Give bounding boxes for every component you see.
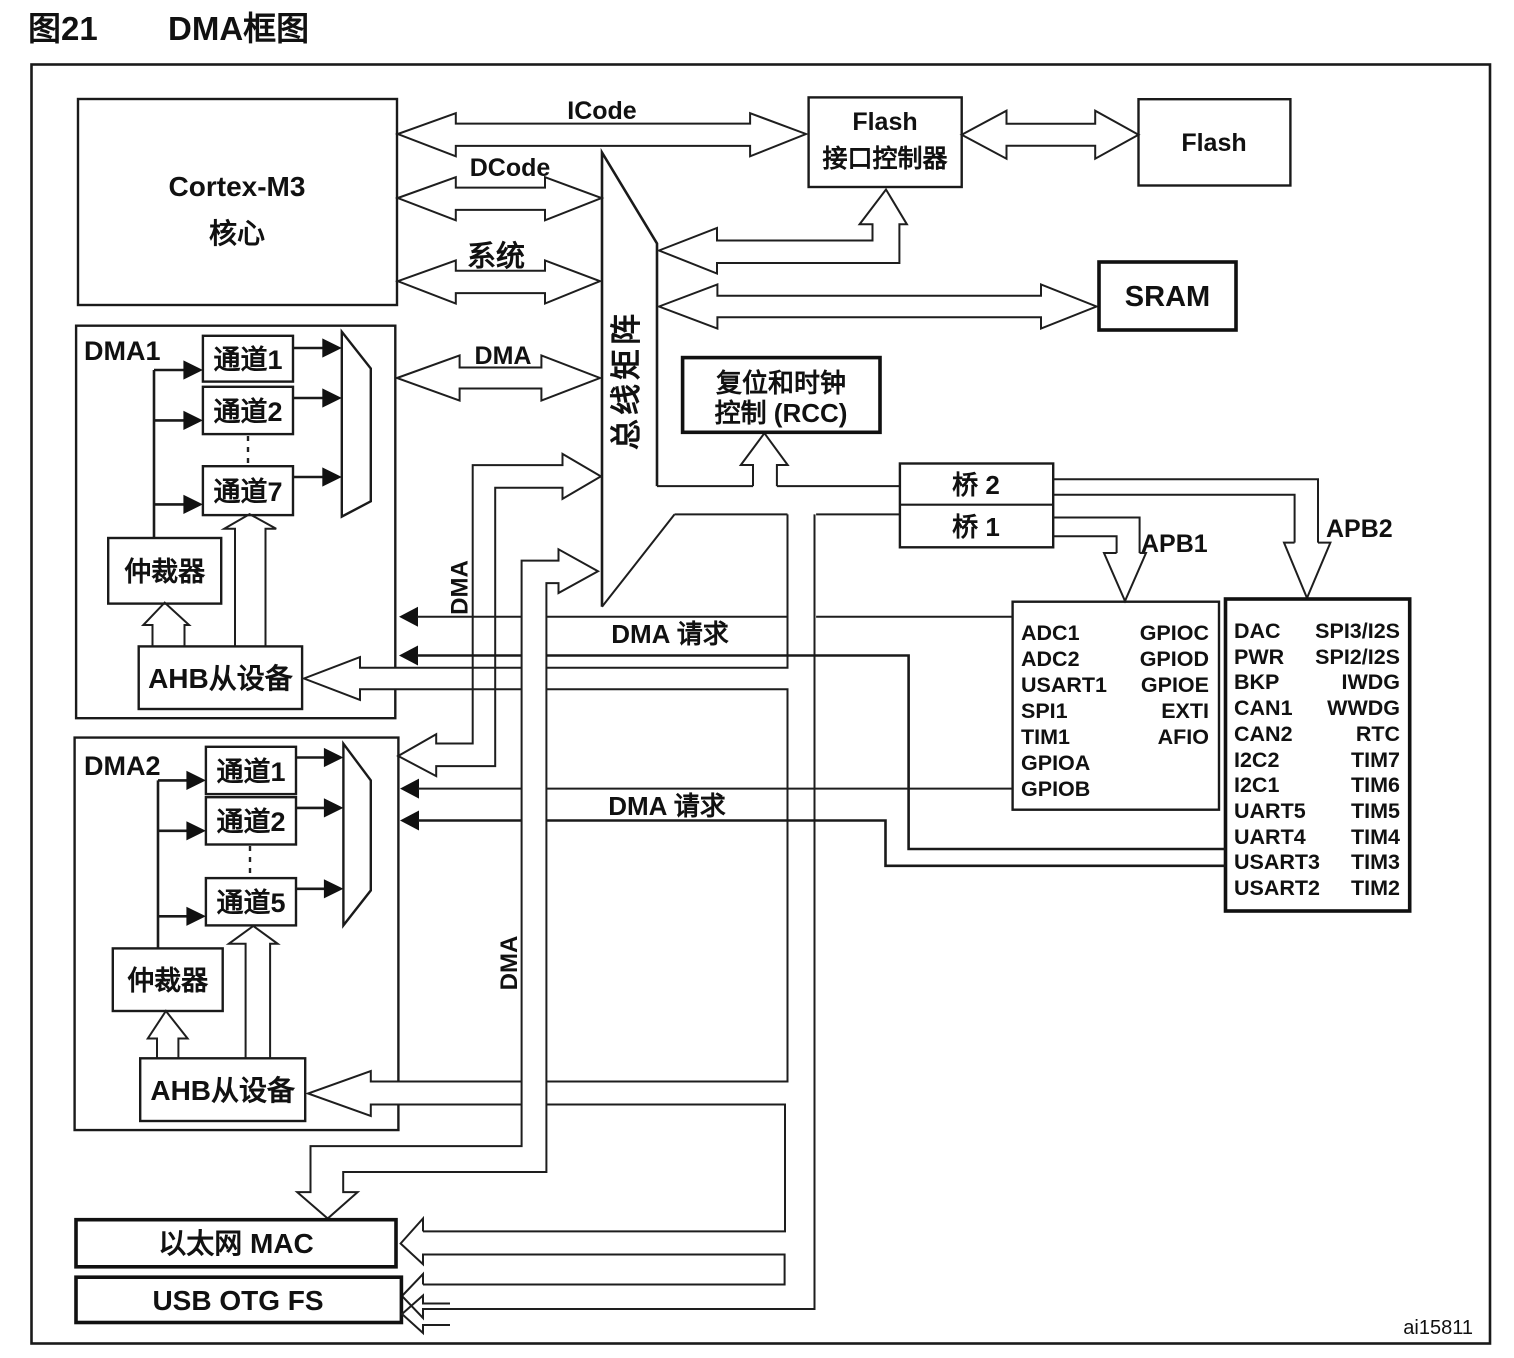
- svg-text:SPI2/I2S: SPI2/I2S: [1315, 645, 1400, 669]
- svg-text:APB1: APB1: [1141, 530, 1208, 558]
- svg-text:GPIOC: GPIOC: [1140, 621, 1209, 645]
- svg-text:DMA2: DMA2: [84, 751, 161, 781]
- svg-text:IWDG: IWDG: [1341, 670, 1400, 694]
- svg-text:BKP: BKP: [1234, 670, 1279, 694]
- svg-text:AFIO: AFIO: [1158, 725, 1209, 749]
- svg-text:TIM4: TIM4: [1351, 825, 1400, 849]
- svg-text:通道7: 通道7: [213, 476, 282, 507]
- svg-text:仲裁器: 仲裁器: [124, 557, 206, 587]
- svg-text:通道2: 通道2: [216, 806, 285, 837]
- svg-text:UART4: UART4: [1234, 825, 1306, 849]
- svg-text:USART3: USART3: [1234, 850, 1320, 874]
- svg-text:Flash: Flash: [1181, 129, 1246, 157]
- svg-text:GPIOD: GPIOD: [1140, 647, 1209, 671]
- svg-text:核心: 核心: [209, 218, 265, 249]
- svg-text:ai15811: ai15811: [1403, 1317, 1473, 1339]
- svg-text:DMA: DMA: [475, 342, 532, 370]
- svg-text:TIM1: TIM1: [1021, 725, 1070, 749]
- svg-text:I2C1: I2C1: [1234, 773, 1279, 797]
- svg-text:UART5: UART5: [1234, 799, 1306, 823]
- svg-text:DMA1: DMA1: [84, 336, 161, 366]
- svg-text:CAN2: CAN2: [1234, 722, 1293, 746]
- svg-text:TIM6: TIM6: [1351, 773, 1400, 797]
- svg-text:ICode: ICode: [567, 97, 637, 125]
- svg-text:桥 2: 桥 2: [952, 470, 1000, 500]
- svg-text:DMA 请求: DMA 请求: [608, 791, 725, 821]
- svg-text:TIM2: TIM2: [1351, 876, 1400, 900]
- svg-text:总线矩阵: 总线矩阵: [609, 310, 644, 450]
- svg-text:DMA 请求: DMA 请求: [611, 619, 728, 649]
- svg-text:DMA框图: DMA框图: [168, 10, 309, 47]
- svg-text:通道5: 通道5: [216, 887, 285, 918]
- svg-text:DAC: DAC: [1234, 619, 1281, 643]
- svg-text:PWR: PWR: [1234, 645, 1285, 669]
- svg-text:GPIOA: GPIOA: [1021, 751, 1090, 775]
- svg-text:通道1: 通道1: [216, 756, 285, 787]
- svg-text:TIM5: TIM5: [1351, 799, 1400, 823]
- svg-text:桥 1: 桥 1: [952, 512, 1000, 542]
- svg-text:GPIOE: GPIOE: [1141, 673, 1209, 697]
- svg-text:复位和时钟: 复位和时钟: [716, 368, 846, 398]
- svg-text:Cortex-M3: Cortex-M3: [169, 171, 306, 202]
- svg-text:RTC: RTC: [1356, 722, 1400, 746]
- svg-text:SPI1: SPI1: [1021, 699, 1068, 723]
- svg-text:WWDG: WWDG: [1327, 696, 1400, 720]
- svg-text:USB OTG FS: USB OTG FS: [152, 1285, 323, 1316]
- svg-text:AHB从设备: AHB从设备: [150, 1075, 296, 1106]
- svg-text:TIM7: TIM7: [1351, 748, 1400, 772]
- svg-text:GPIOB: GPIOB: [1021, 777, 1090, 801]
- svg-text:CAN1: CAN1: [1234, 696, 1293, 720]
- svg-text:ADC1: ADC1: [1021, 621, 1080, 645]
- svg-text:DMA: DMA: [447, 560, 474, 615]
- svg-text:系统: 系统: [467, 239, 525, 273]
- svg-text:AHB从设备: AHB从设备: [148, 663, 294, 694]
- svg-text:通道1: 通道1: [213, 344, 282, 375]
- svg-text:SRAM: SRAM: [1125, 281, 1210, 313]
- svg-text:TIM3: TIM3: [1351, 850, 1400, 874]
- svg-text:DCode: DCode: [470, 154, 551, 182]
- svg-text:SPI3/I2S: SPI3/I2S: [1315, 619, 1400, 643]
- svg-text:EXTI: EXTI: [1161, 699, 1209, 723]
- svg-text:控制 (RCC): 控制 (RCC): [715, 398, 848, 428]
- svg-text:DMA: DMA: [496, 936, 523, 991]
- svg-text:仲裁器: 仲裁器: [127, 966, 209, 996]
- svg-text:USART2: USART2: [1234, 876, 1320, 900]
- svg-text:以太网 MAC: 以太网 MAC: [158, 1228, 314, 1259]
- svg-text:ADC2: ADC2: [1021, 647, 1080, 671]
- svg-text:USART1: USART1: [1021, 673, 1107, 697]
- svg-text:Flash: Flash: [852, 108, 917, 136]
- svg-text:APB2: APB2: [1326, 515, 1393, 543]
- svg-text:接口控制器: 接口控制器: [822, 145, 948, 173]
- svg-text:I2C2: I2C2: [1234, 748, 1279, 772]
- svg-text:图21: 图21: [28, 10, 98, 47]
- svg-text:通道2: 通道2: [213, 396, 282, 427]
